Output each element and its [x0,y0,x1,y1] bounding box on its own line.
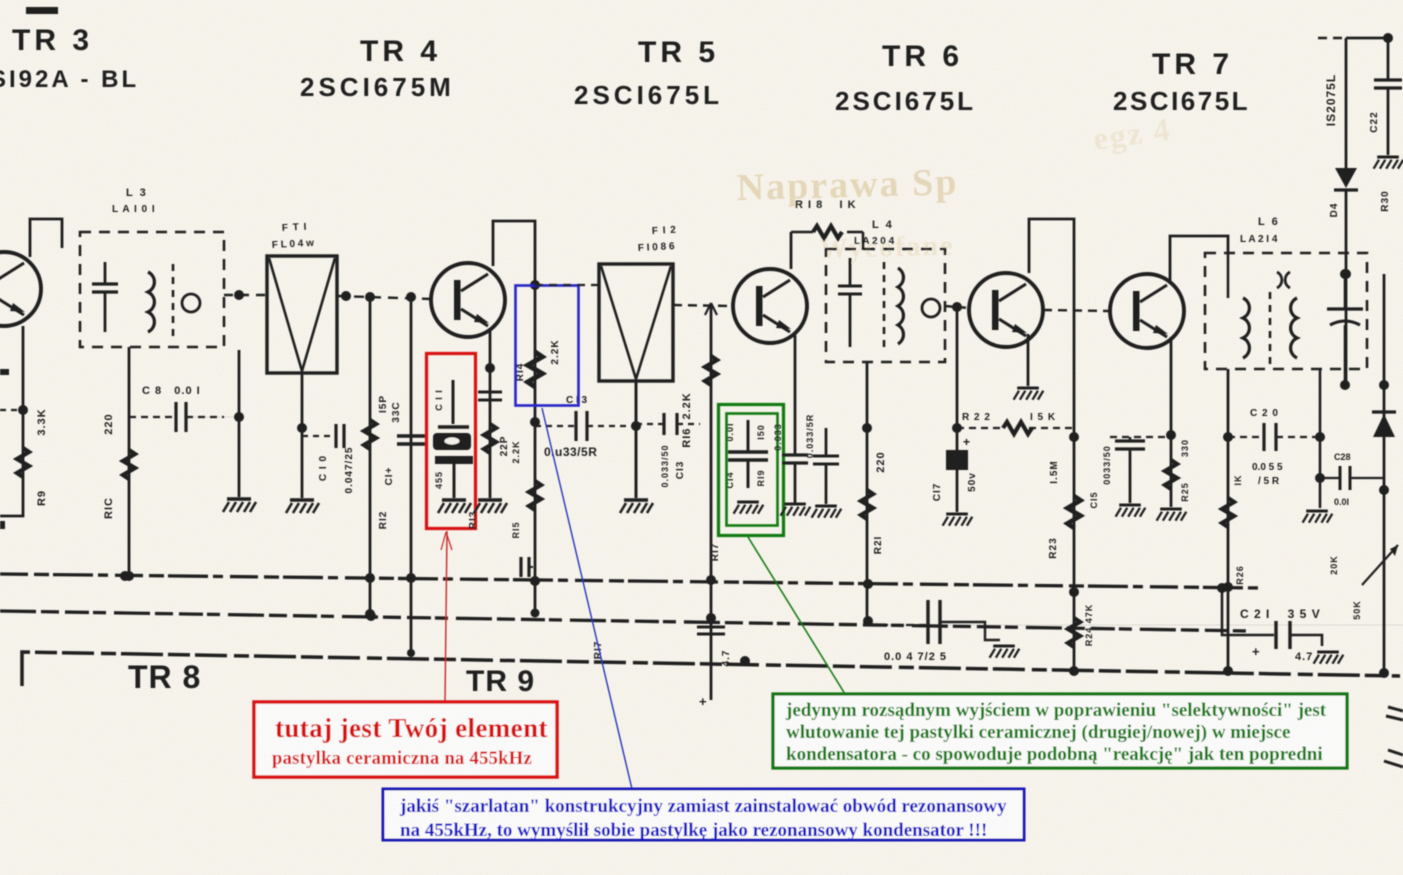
coil inside L4 [898,268,903,344]
red annotation box [254,702,557,777]
ground TR6 emitter [1014,388,1044,400]
node secondary C20 junction [1223,432,1233,442]
wire FT1 out down [301,373,304,498]
resistor R23 [1067,496,1080,528]
node bus3 j5 [740,656,750,666]
ground TR5 emitter [781,504,811,516]
wire FT2 out down [635,381,638,498]
wire into FT2 [535,284,599,286]
tick mark right edge a [1388,707,1403,711]
wire TR6 emitter down [1027,334,1030,386]
node C11 branch bus1 [406,573,416,583]
node TR3 emitter junction [18,405,28,415]
node branch bus2 [706,613,716,623]
wire cap to ground step [940,622,1000,640]
capacitor C22e electrolytic on branch [697,626,725,629]
wire L6 secondary branch down [1227,369,1230,671]
wire TR3 emitter to left rail [0,326,23,516]
transistor TR7 [1110,274,1184,348]
node top right junction [1383,33,1393,43]
wire right of C20 down [1319,369,1322,508]
wire R18 right down to L4 [862,232,865,250]
node branch bus2 junction [365,609,375,619]
stray mark left edge [0,369,9,375]
node base branch junction [365,292,375,302]
capacitor C12 plates [478,391,502,394]
node right branch j2 [1379,485,1389,495]
wire TR3 collector loop [30,219,62,257]
resistor R13 [484,424,496,453]
wire corner to cap 0.047 [867,624,926,626]
node C20 right junction [1315,432,1325,442]
node L3 bottom junction [124,571,134,581]
ceramic filter FT1 box [267,256,337,373]
capacitor C11 plates [397,434,425,437]
ground ceramic resonator [438,500,471,513]
node secondary bus1 [1223,582,1233,592]
filter FT2 V marking [601,266,671,379]
blue callout line [542,408,632,789]
wire right branch down [1383,274,1386,672]
wire TR7 collector up and over [1170,236,1228,284]
ceramic resonator disc body [433,433,471,450]
transistor TR3 [0,252,41,326]
node C11 branch top [406,292,416,302]
capacitor C21 electrolytic [1274,621,1277,649]
node rail bus1 junction b [1069,587,1079,597]
node bus1 j1 [120,571,130,581]
node TR4 emitter junction [485,363,495,373]
node rail C15 junction [1069,432,1079,442]
green callout line [748,537,845,694]
wire C28 right [1350,477,1384,479]
wire base branch down [710,303,713,700]
node rail bus1 junction [530,576,540,586]
ground C14 [734,502,764,514]
wire C17 branch down [956,307,959,512]
coil L6 secondary [1291,298,1297,358]
wire D4 cathode down [1345,190,1348,385]
green highlight outer rectangle [719,405,784,536]
ground FT2 [620,500,653,513]
capacitor C8 [174,402,177,432]
node L4 branch top junction [862,423,872,433]
wire C20 right [1276,436,1320,438]
node secondary bus3 [1223,666,1233,676]
wire C8 to branch [186,416,239,418]
capacitor C13b [662,413,665,435]
node bus1 j3 [863,579,873,589]
coil inside L3 [148,272,154,332]
variable resistor arrow [1362,545,1398,585]
ceramic resonator lead bottom [453,464,456,498]
wire D4 anode [1345,38,1348,168]
transformer L6 dashed box [1205,253,1367,369]
node junction at C8 branch [234,290,244,300]
wire C8 branch down to ground [238,350,241,497]
ceramic resonator top plate [438,425,469,428]
node right branch j1 [1379,380,1389,390]
green annotation box [773,694,1347,768]
node R21 bus junction [863,616,873,626]
wire TR6 to TR7 base [1043,310,1110,311]
wire C28 left [1320,477,1340,479]
node C11 branch bus3 [407,649,415,657]
node trimmer bottom [1340,380,1350,390]
capacitor C22 [1374,78,1402,81]
node FT1 out junction [297,423,307,433]
ground TR4 emitter [474,500,507,513]
stray dot left [0,521,5,529]
resistor R25 [1165,460,1177,489]
node rail top junction [530,280,540,290]
wire C21 branch [1222,588,1274,635]
coil core dashes L6 [1269,292,1272,364]
node FT1 right junction [341,291,351,301]
red callout line [445,531,447,702]
wire bus line 3 [22,652,1400,686]
node rail bus2 end [531,609,540,618]
diode D4 [1335,168,1357,188]
node TR7 emitter junction [1166,430,1176,440]
wire TR4 collector up and rail [493,221,535,614]
arrow head on branch top [705,303,717,315]
wire R21 corner to C18 [867,621,1403,625]
wire C19 to emitter [1110,436,1171,438]
resistor R15 on rail [529,481,541,510]
wire trimmer leads [1344,274,1347,309]
wire FT1 to TR4 base [337,296,431,299]
green highlight inner rectangle [727,414,778,526]
stray mark top left [26,7,58,14]
wire inside L6 down [1227,253,1230,298]
resistor R11 [364,420,376,449]
resistor R21 [861,490,873,519]
capacitor C16b neighbor [813,455,839,458]
node C17 top junction [952,423,962,433]
capacitor inside L3 [92,282,118,285]
coil secondary small loop L4 [922,299,940,317]
ceramic resonator lead top [452,380,455,424]
wire R18 horizontal [791,231,813,234]
node trimmer top [1340,269,1350,279]
transistor TR6 [969,273,1043,347]
resistor R26 [1222,498,1234,527]
wire L3 bottom to bus [128,347,131,577]
node rail junction mid [530,417,540,427]
capacitor C14 [728,450,768,453]
coil L6 top link [1277,272,1290,288]
wire bus line 1 [0,574,1262,588]
node branch bus1 [706,575,716,585]
resistor R14 in blue box [528,352,542,387]
node FT2 out junction [631,421,641,431]
wire TR4 emitter down [489,329,492,498]
filter FT1 V marking [269,258,335,371]
node bus1 j4 [1217,583,1227,593]
capacitor C13 coupling [574,411,577,441]
capacitor C28 [1339,466,1342,490]
wire L3 to FT1 [224,294,267,296]
wire branch down from base wire [369,297,372,613]
ground C19 [1116,505,1146,517]
wire TR6 collector up and rail [1029,219,1074,672]
ceramic filter FT2 box [599,264,673,381]
resistor R17 [705,356,717,385]
wire bus line 2 [0,611,1250,631]
capacitor C12 on rail [519,557,522,577]
node TR6 base junction [952,302,962,312]
resistor R22 horizontal [1003,422,1032,434]
coil secondary small loop L3 [182,294,200,312]
wire TR5 collector up [790,232,793,269]
wire C11 branch [410,297,413,654]
wire C20 left [1228,436,1264,438]
wire TR7 emitter down [1170,337,1173,507]
ground after 0.047 cap [990,646,1020,658]
transistor TR4 [431,263,505,337]
transistor TR5 [733,269,807,343]
ground C16b [812,506,842,518]
capacitor inside L4 [838,285,862,288]
wire R22 horizontal [957,427,1003,429]
ground C17 [943,514,973,526]
node right branch bus3 [1379,668,1389,678]
resistor R9 [17,448,29,477]
node C8 right junction [234,412,244,422]
node rail bus3 junction [1069,666,1079,676]
red highlight rectangle [427,354,476,529]
capacitor C18 0.047 [926,600,929,644]
wire FT2 to TR5 base [673,305,733,306]
capacitor C16 [782,453,808,456]
capacitor C10 [334,424,337,448]
ground under C8 branch [223,499,256,512]
ground C22 [1374,157,1403,169]
transformer L3 dashed box [80,232,224,347]
capacitor C20 [1262,423,1265,451]
node D4 line junction [1341,269,1351,279]
coil L6 primary [1243,298,1249,358]
transformer L4 dashed box [826,249,945,362]
wire TR5 emitter down [794,335,797,455]
node branch bus1 junction [365,573,375,583]
capacitor C19 [1115,439,1145,442]
node C28 junction [1315,473,1325,483]
resistor R24 [1068,618,1080,647]
blue annotation box [383,789,1024,840]
ground FT1 [286,500,319,513]
ground C21 [1314,652,1344,664]
coil core dashes L4 [883,262,886,350]
wire L4 to TR6 base [945,306,969,308]
node bus3 j6 [1383,672,1385,674]
ground C20 branch [1303,511,1333,523]
wire stub left edge [0,409,23,411]
resistor R18 horizontal [813,226,842,238]
wire C21 to ground [1290,635,1322,646]
capacitor C17 electrolytic body [946,450,968,470]
blue highlight rectangle [516,286,579,406]
tick mark right edge b [1388,750,1403,755]
resistor R10 [123,450,135,479]
coil core dashes L3 [172,264,175,338]
wire L4 bottom branch [866,362,869,624]
node bus2 j2 [366,611,376,621]
ceramic resonator bottom plate [435,456,473,464]
diode D5 [1373,414,1395,437]
wire top right rail [1346,37,1388,40]
ground TR7 emitter [1157,509,1187,521]
trimmer capacitor C23 [1327,307,1363,310]
